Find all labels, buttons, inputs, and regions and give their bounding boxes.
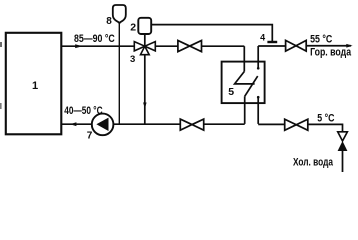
svg-text:7: 7 [87, 131, 93, 142]
wire return pipe boiler side [62, 123, 92, 125]
svg-text:55 °C: 55 °C [310, 34, 332, 46]
valve return gate [180, 119, 203, 130]
svg-text:5: 5 [228, 86, 234, 98]
arrow cold water inlet [338, 141, 348, 151]
wire valve drain down to return [144, 55, 146, 125]
wire hot water line to outlet valve [258, 45, 285, 47]
wire vessel stem and bypass down to return [118, 23, 120, 125]
wire cold water to check valve corner [308, 124, 343, 131]
wire return valve to exchanger corner [204, 123, 245, 125]
wire secondary outlet stub [257, 46, 259, 69]
svg-text:4: 4 [260, 33, 265, 43]
svg-text:Гор. вода: Гор. вода [310, 46, 352, 58]
scan speck left edge upper [0, 42, 2, 47]
check valve cold inlet [338, 132, 348, 141]
arrow hot water [346, 44, 352, 48]
svg-text:Хол. вода: Хол. вода [293, 157, 334, 169]
wire actuator stem [144, 34, 146, 46]
boiler 1 [6, 33, 62, 135]
wire supply pipe boiler to 3-way valve [62, 45, 135, 47]
heating coil zigzag [235, 72, 255, 84]
wire secondary cold inlet stub [257, 97, 259, 124]
svg-text:8: 8 [106, 16, 112, 27]
svg-text:3: 3 [130, 54, 135, 65]
svg-text:2: 2 [130, 22, 136, 34]
arrow supply flow right [75, 44, 82, 48]
valve supply gate [178, 41, 202, 52]
wire cold water inlet stem [342, 150, 344, 172]
wire down into exchanger primary inlet [243, 46, 245, 71]
valve hot water outlet [286, 40, 307, 51]
valve cold water [285, 119, 308, 130]
heat exchanger 5 [222, 62, 265, 104]
expansion vessel 8 [113, 5, 126, 24]
arrow drain flow down [143, 103, 147, 109]
scan speck left edge lower [0, 103, 2, 109]
wire valve to heat exchanger corner [155, 45, 178, 47]
svg-text:1: 1 [32, 80, 38, 92]
wire hot water outlet with arrow [306, 45, 351, 47]
arrow return flow left [70, 122, 76, 126]
svg-text:85—90 °C: 85—90 °C [74, 33, 115, 45]
wire primary outlet down to return [244, 96, 246, 124]
wire cold water line from exchanger [258, 123, 284, 125]
svg-text:5 °C: 5 °C [317, 112, 334, 124]
sensor 4 bar [267, 41, 277, 43]
wire control line to sensor 4 [151, 25, 272, 42]
3-way valve 3 [134, 42, 155, 55]
actuator 2 [138, 18, 151, 34]
wire return pipe pump to exchanger [113, 123, 180, 125]
pump 7 [92, 114, 114, 136]
